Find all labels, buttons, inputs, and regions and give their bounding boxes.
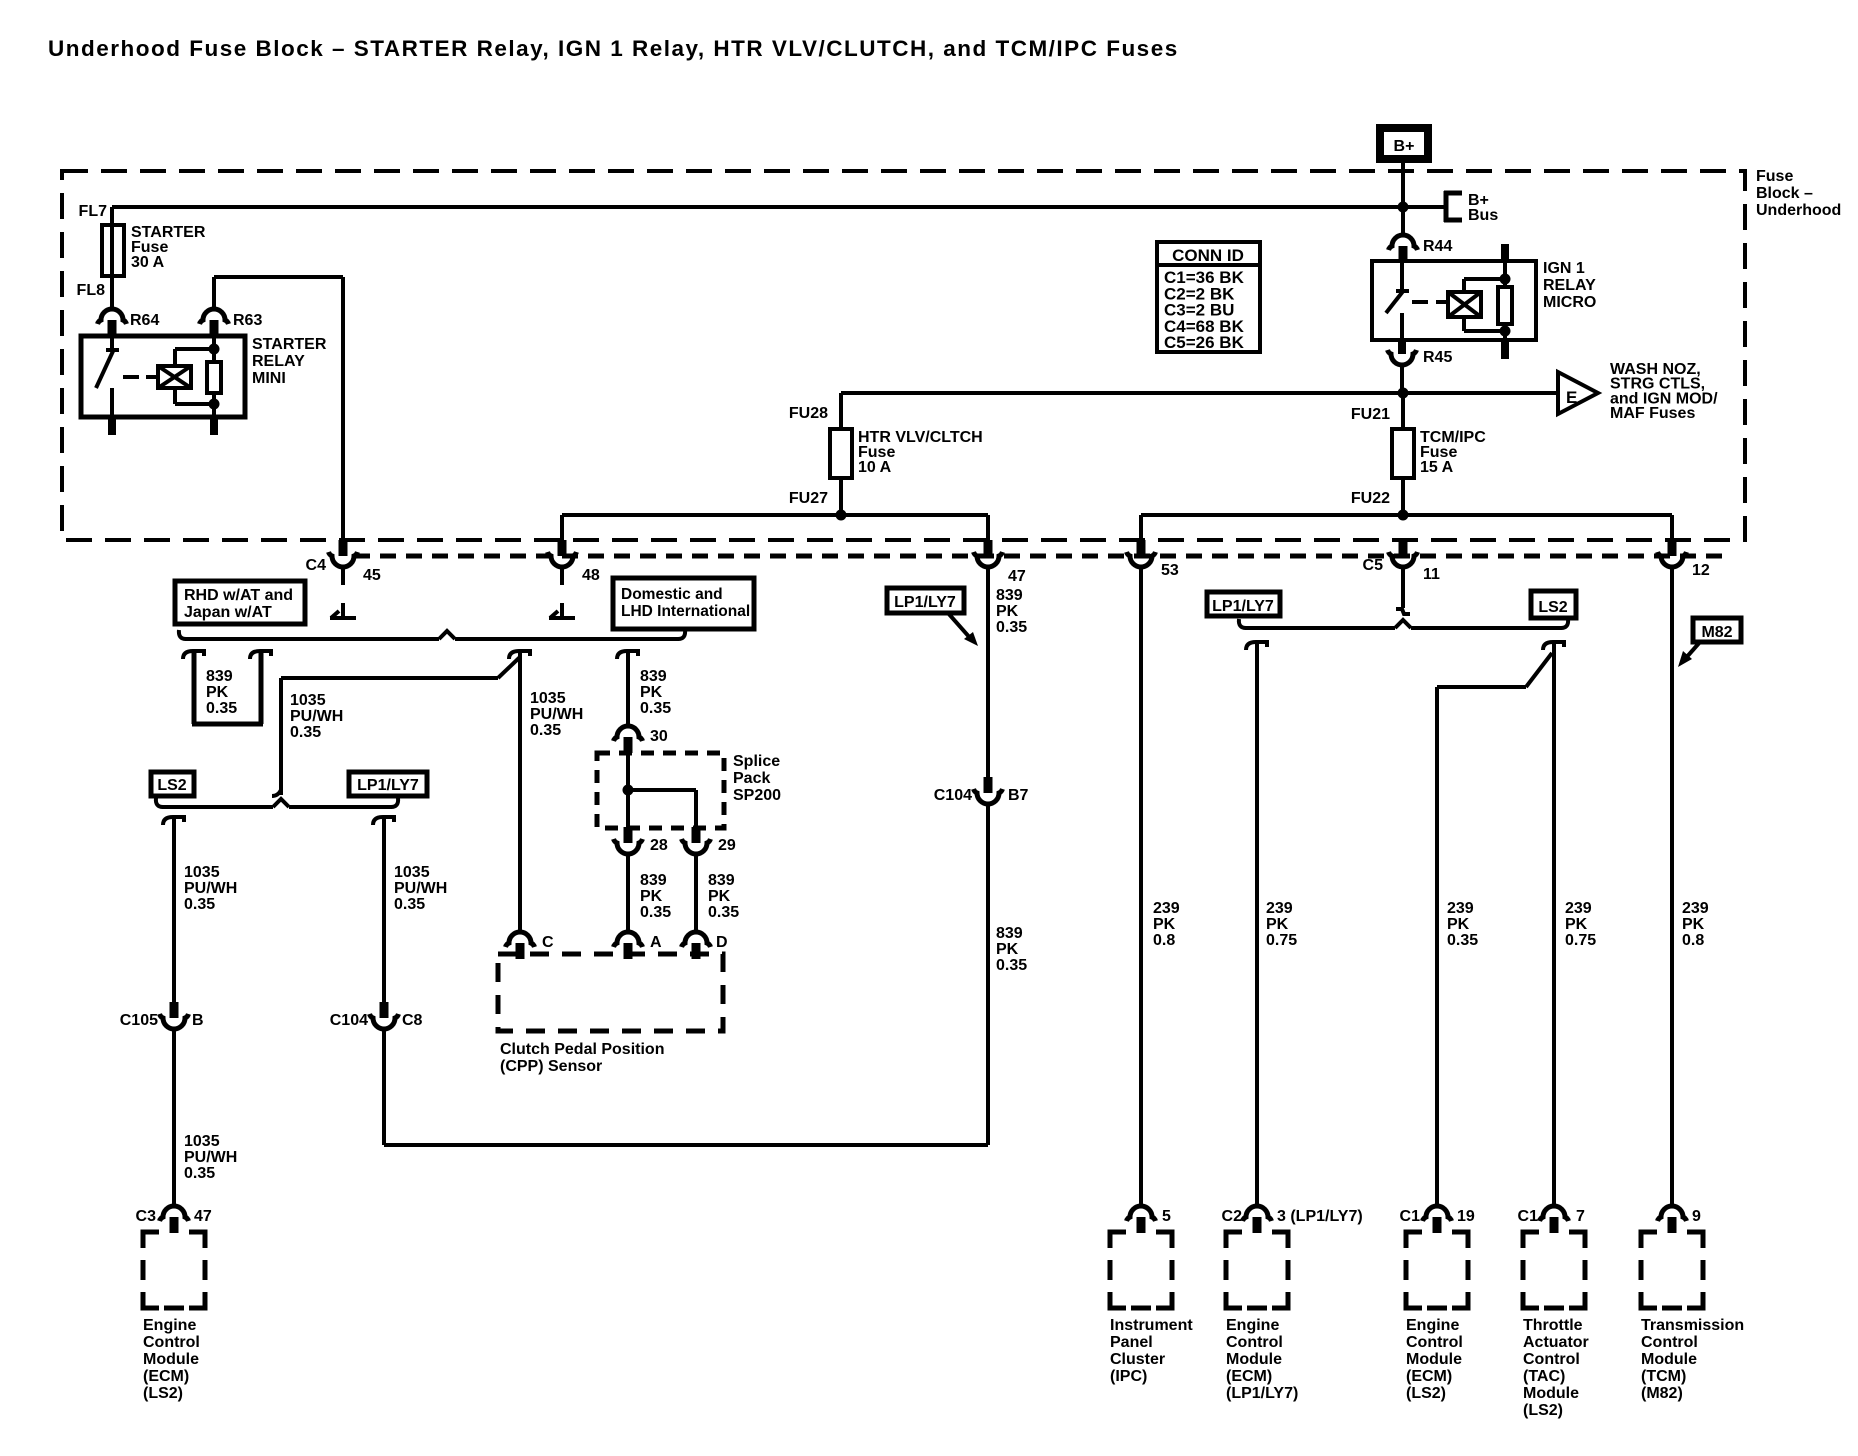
junction dot B+ bus (1398, 202, 1409, 213)
label box Domestic and LHD International (613, 578, 754, 629)
wire 839 to splice pack (617, 651, 638, 726)
wire LS2 to TAC (1543, 642, 1564, 1206)
svg-text:R64: R64 (130, 312, 159, 329)
svg-text:RHD w/AT and: RHD w/AT and (184, 587, 293, 604)
svg-text:PU/WH: PU/WH (394, 880, 447, 897)
svg-text:LS2: LS2 (157, 777, 186, 794)
wire FU28 feed (839, 393, 843, 429)
label 1035 PU/WH 0.35 to ECM (184, 1133, 237, 1182)
svg-text:FU28: FU28 (789, 405, 828, 422)
dead-end below 45 (330, 567, 356, 618)
svg-text:RELAY: RELAY (1543, 277, 1596, 294)
svg-text:M82: M82 (1701, 624, 1732, 641)
svg-text:839: 839 (640, 668, 667, 685)
B+ Bus tap symbol (1444, 191, 1498, 224)
svg-text:1035: 1035 (530, 690, 566, 707)
svg-text:PU/WH: PU/WH (290, 708, 343, 725)
svg-text:29: 29 (718, 837, 736, 854)
svg-text:0.35: 0.35 (184, 896, 215, 913)
svg-text:B+: B+ (1394, 138, 1415, 155)
svg-text:FL8: FL8 (77, 282, 106, 299)
svg-text:Pack: Pack (733, 770, 770, 787)
svg-text:C104: C104 (330, 1012, 368, 1029)
svg-text:B: B (192, 1012, 204, 1029)
svg-text:Control: Control (1641, 1334, 1698, 1351)
fuse FU21/FU22 TCM/IPC 15A (1351, 406, 1486, 507)
svg-text:Control: Control (143, 1334, 200, 1351)
svg-text:0.35: 0.35 (1447, 932, 1478, 949)
svg-text:MICRO: MICRO (1543, 294, 1596, 311)
svg-text:Splice: Splice (733, 753, 780, 770)
svg-text:(LS2): (LS2) (1406, 1385, 1446, 1402)
svg-text:A: A (650, 934, 662, 951)
svg-text:CONN ID: CONN ID (1172, 246, 1244, 265)
svg-text:PU/WH: PU/WH (184, 880, 237, 897)
starter relay pin stubs (108, 417, 218, 435)
svg-text:Panel: Panel (1110, 1334, 1153, 1351)
label 239 PK 0.75 TAC (1565, 900, 1596, 949)
svg-text:0.75: 0.75 (1565, 932, 1596, 949)
dead-end below 48 (549, 567, 575, 618)
wire C105 to C3 (172, 1029, 176, 1206)
label Throttle Actuator Control TAC Module LS2 (1523, 1317, 1589, 1419)
svg-text:839: 839 (640, 872, 667, 889)
wire FU21 feed (1401, 393, 1405, 429)
label Engine Control Module ECM LS2 right (1406, 1317, 1463, 1402)
svg-text:PK: PK (996, 603, 1019, 620)
svg-text:FU21: FU21 (1351, 406, 1390, 423)
wire LS2 to ECM2 (1437, 653, 1552, 1206)
starter relay resistor (175, 336, 221, 417)
svg-text:Engine: Engine (1226, 1317, 1279, 1334)
label 1035 PU/WH 0.35 LS2 (184, 864, 237, 913)
wire R45 to E bus (1400, 363, 1404, 393)
svg-text:Engine: Engine (143, 1317, 196, 1334)
svg-text:Control: Control (1226, 1334, 1283, 1351)
svg-text:(ECM): (ECM) (1226, 1368, 1272, 1385)
svg-text:0.35: 0.35 (640, 904, 671, 921)
svg-text:(CPP) Sensor: (CPP) Sensor (500, 1058, 602, 1075)
svg-text:PK: PK (1447, 916, 1470, 933)
svg-text:0.35: 0.35 (530, 722, 561, 739)
svg-text:30: 30 (650, 728, 668, 745)
svg-text:(LP1/LY7): (LP1/LY7) (1226, 1385, 1298, 1402)
svg-text:Clutch Pedal Position: Clutch Pedal Position (500, 1041, 664, 1058)
wire 53 to IPC (1139, 567, 1143, 1206)
svg-text:STARTER: STARTER (252, 336, 327, 353)
junction dot E bus (1398, 388, 1409, 399)
wire bus to connector 12 (1670, 515, 1674, 542)
svg-text:SP200: SP200 (733, 787, 781, 804)
fuse FU28/FU27 HTR VLV/CLTCH 10A (789, 405, 983, 507)
connector R64 (98, 309, 160, 336)
label STARTER RELAY MINI (252, 336, 327, 387)
svg-text:Japan w/AT: Japan w/AT (184, 604, 272, 621)
module box ECM LS2 right (1406, 1232, 1468, 1308)
label 239 PK 0.8 TCM (1682, 900, 1709, 949)
svg-text:FU27: FU27 (789, 490, 828, 507)
svg-text:PU/WH: PU/WH (184, 1149, 237, 1166)
svg-text:PK: PK (708, 888, 731, 905)
brace LS2/LP1 options (156, 798, 398, 807)
svg-text:PK: PK (640, 684, 663, 701)
wire 47 to B7 (986, 567, 990, 779)
arrow E to other fuses (1558, 372, 1598, 414)
connector C5 pin 12 (1658, 540, 1710, 579)
connector C5 pin 11 (1363, 540, 1440, 583)
svg-text:PK: PK (996, 941, 1019, 958)
brace LP1/LS2 options right (1239, 619, 1568, 628)
IGN1 relay coil (1448, 279, 1481, 331)
svg-text:C1: C1 (1518, 1208, 1539, 1225)
label box LP1/LY7 with arrow to 839 wire (887, 588, 978, 646)
svg-text:LP1/LY7: LP1/LY7 (357, 777, 419, 794)
svg-text:Underhood Fuse Block – STARTER: Underhood Fuse Block – STARTER Relay, IG… (48, 36, 1179, 61)
wire left fuse output bus (562, 513, 988, 517)
wire E distribution bus (841, 391, 1558, 395)
label 839 PK 0.35 pin28 (640, 872, 671, 921)
starter relay switch (96, 336, 119, 417)
connector C4 pin 47 (974, 540, 1026, 585)
node B+ battery feed (1380, 128, 1428, 159)
svg-text:0.35: 0.35 (996, 619, 1027, 636)
wire 11 to brace (1396, 567, 1410, 614)
connector C3 pin 47 (136, 1206, 212, 1233)
svg-text:5: 5 (1162, 1208, 1171, 1225)
svg-text:239: 239 (1153, 900, 1180, 917)
svg-text:12: 12 (1692, 562, 1710, 579)
connector C1 pin 7 (1518, 1206, 1585, 1233)
svg-text:Throttle: Throttle (1523, 1317, 1583, 1334)
svg-text:R45: R45 (1423, 349, 1452, 366)
wire R63 up (212, 277, 216, 309)
connector C104 pin B7 (934, 777, 1029, 804)
svg-text:MAF Fuses: MAF Fuses (1610, 405, 1695, 422)
svg-text:0.35: 0.35 (290, 724, 321, 741)
svg-text:(M82): (M82) (1641, 1385, 1683, 1402)
svg-text:15 A: 15 A (1420, 459, 1454, 476)
label 239 PK 0.75 ECM1 (1266, 900, 1297, 949)
IGN1 relay junction dots (1500, 274, 1511, 337)
label Transmission Control Module TCM M82 (1641, 1317, 1744, 1402)
wire bus to connector 47 (986, 515, 990, 542)
connector 30 splice pack (614, 726, 668, 753)
svg-text:LHD International: LHD International (621, 603, 750, 620)
svg-text:1035: 1035 (394, 864, 430, 881)
title text (48, 36, 1179, 61)
svg-text:(TCM): (TCM) (1641, 1368, 1686, 1385)
svg-text:0.8: 0.8 (1153, 932, 1175, 949)
svg-text:Actuator: Actuator (1523, 1334, 1589, 1351)
label 1035 PU/WH 0.35 CPP feed (530, 690, 583, 739)
connector R45 (1388, 340, 1453, 366)
svg-text:53: 53 (1161, 562, 1179, 579)
svg-text:Control: Control (1406, 1334, 1463, 1351)
svg-text:11: 11 (1423, 566, 1440, 583)
svg-text:PK: PK (1153, 916, 1176, 933)
svg-text:239: 239 (1447, 900, 1474, 917)
relay K-START STARTER RELAY MINI box (81, 336, 245, 417)
svg-text:PK: PK (206, 684, 229, 701)
svg-text:Transmission: Transmission (1641, 1317, 1744, 1334)
svg-text:45: 45 (363, 567, 381, 584)
svg-text:Engine: Engine (1406, 1317, 1459, 1334)
connector C105 pin B (120, 1002, 204, 1029)
fuse block underhood dashed boundary (62, 171, 1745, 540)
svg-text:E: E (1566, 388, 1577, 407)
label IGN 1 RELAY MICRO (1543, 260, 1596, 311)
svg-text:47: 47 (194, 1208, 212, 1225)
svg-text:Module: Module (1523, 1385, 1579, 1402)
svg-text:0.35: 0.35 (184, 1165, 215, 1182)
svg-text:839: 839 (708, 872, 735, 889)
module box ECM LP1/LY7 (1226, 1232, 1288, 1308)
wire 29 to D (694, 854, 698, 932)
wire C8 link (384, 804, 988, 1145)
svg-text:Domestic and: Domestic and (621, 586, 723, 603)
svg-text:1035: 1035 (184, 864, 220, 881)
label Clutch Pedal Position CPP Sensor (500, 1041, 664, 1075)
svg-text:R44: R44 (1423, 238, 1452, 255)
svg-text:Cluster: Cluster (1110, 1351, 1165, 1368)
svg-text:C5=26 BK: C5=26 BK (1164, 333, 1245, 352)
svg-text:C105: C105 (120, 1012, 158, 1029)
label Engine Control Module ECM LS2 left (143, 1317, 200, 1402)
connector C4 pin 53 (1127, 540, 1179, 579)
IGN1 relay pin stubs (1501, 244, 1509, 359)
label box LS2 left (151, 772, 194, 796)
connector R63 (200, 309, 263, 336)
wire LP1 to ECM1 (1246, 642, 1267, 1206)
wire top feed bus (112, 205, 1445, 209)
label 839 PK 0.35 pin29 (708, 872, 739, 921)
module box Engine Control Module ECM LS2 left (143, 1232, 205, 1308)
svg-text:(IPC): (IPC) (1110, 1368, 1147, 1385)
wire 839 option loop (183, 651, 271, 724)
svg-text:Fuse: Fuse (1756, 168, 1793, 185)
wire right fuse output bus (1141, 513, 1672, 517)
svg-text:IGN 1: IGN 1 (1543, 260, 1585, 277)
module box TAC Module (1523, 1232, 1585, 1308)
label Fuse Block - Underhood (1756, 168, 1841, 219)
svg-text:C4: C4 (306, 557, 327, 574)
svg-text:D: D (716, 934, 728, 951)
svg-text:Underhood: Underhood (1756, 202, 1841, 219)
in-line connector dotted line (354, 554, 1728, 559)
label box LS2 right (1531, 591, 1576, 618)
svg-text:47: 47 (1008, 568, 1026, 585)
IGN1 relay resistor (1464, 261, 1512, 340)
svg-text:Module: Module (1406, 1351, 1462, 1368)
connector 29 (682, 827, 736, 854)
wire bus to connector 48 (560, 515, 564, 542)
connector 28 (614, 827, 668, 854)
svg-text:Block –: Block – (1756, 185, 1813, 202)
svg-text:Control: Control (1523, 1351, 1580, 1368)
module box CPP sensor (498, 954, 723, 1031)
svg-text:Module: Module (1641, 1351, 1697, 1368)
wire 1035 branch to LS2/LP1 brace (272, 657, 520, 796)
label Splice Pack SP200 (733, 753, 781, 804)
svg-text:(ECM): (ECM) (143, 1368, 189, 1385)
svg-text:48: 48 (582, 567, 600, 584)
svg-text:C2: C2 (1222, 1208, 1243, 1225)
junction dot FU27 bus (836, 510, 847, 521)
svg-text:(ECM): (ECM) (1406, 1368, 1452, 1385)
svg-text:C104: C104 (934, 787, 972, 804)
svg-text:FL7: FL7 (79, 203, 108, 220)
svg-text:10 A: 10 A (858, 459, 892, 476)
label 839 PK 0.35 option loop (206, 668, 237, 717)
svg-text:839: 839 (206, 668, 233, 685)
svg-text:Module: Module (1226, 1351, 1282, 1368)
relay U-IGN1 IGN 1 RELAY MICRO box (1372, 261, 1536, 340)
svg-text:C: C (542, 934, 554, 951)
label box LP1/LY7 right (1207, 592, 1280, 616)
svg-text:PK: PK (1266, 916, 1289, 933)
label box M82 with arrow (1678, 618, 1741, 667)
starter relay coil (158, 349, 191, 404)
svg-text:R63: R63 (233, 312, 262, 329)
splice pack SP200 dashed box (597, 753, 724, 828)
svg-text:3 (LP1/LY7): 3 (LP1/LY7) (1277, 1208, 1363, 1225)
svg-text:1035: 1035 (290, 692, 326, 709)
svg-text:239: 239 (1266, 900, 1293, 917)
svg-text:B7: B7 (1008, 787, 1029, 804)
svg-text:Instrument: Instrument (1110, 1317, 1193, 1334)
svg-text:C3: C3 (136, 1208, 157, 1225)
svg-text:LS2: LS2 (1538, 599, 1567, 616)
svg-text:19: 19 (1457, 1208, 1475, 1225)
label 839 PK 0.35 below B7 (996, 925, 1027, 974)
svg-text:(LS2): (LS2) (143, 1385, 183, 1402)
svg-text:Module: Module (143, 1351, 199, 1368)
svg-text:LP1/LY7: LP1/LY7 (1212, 598, 1274, 615)
svg-text:0.35: 0.35 (640, 700, 671, 717)
svg-text:MINI: MINI (252, 370, 286, 387)
brace options to connectors 45/48 (179, 630, 685, 639)
svg-text:FU22: FU22 (1351, 490, 1390, 507)
svg-text:RELAY: RELAY (252, 353, 305, 370)
svg-text:0.35: 0.35 (394, 896, 425, 913)
svg-text:C5: C5 (1363, 557, 1384, 574)
svg-text:(TAC): (TAC) (1523, 1368, 1565, 1385)
connector CPP pin C (506, 932, 555, 959)
connector C2 pin 3 (1222, 1206, 1363, 1233)
label 1035 PU/WH 0.35 branch (290, 692, 343, 741)
wire bus to connector 53 (1139, 515, 1143, 542)
label 1035 PU/WH 0.35 LP1 (394, 864, 447, 913)
wire 28 to A (626, 854, 630, 932)
wire FL7 feed down (110, 207, 114, 309)
svg-text:C1: C1 (1400, 1208, 1421, 1225)
connector CPP pin D (682, 932, 728, 959)
svg-text:Bus: Bus (1468, 207, 1498, 224)
svg-text:0.35: 0.35 (708, 904, 739, 921)
svg-text:0.75: 0.75 (1266, 932, 1297, 949)
module box TCM (1641, 1232, 1703, 1308)
label WASH NOZ STRG CTLS and IGN MOD MAF Fuses (1610, 361, 1718, 422)
svg-text:0.8: 0.8 (1682, 932, 1704, 949)
svg-text:839: 839 (996, 587, 1023, 604)
wire R63 to connector 45 (214, 277, 343, 542)
svg-text:(LS2): (LS2) (1523, 1402, 1563, 1419)
starter relay articulation dashes (123, 375, 156, 379)
wire 1035 to C104 C8 (373, 817, 394, 1004)
svg-text:LP1/LY7: LP1/LY7 (894, 594, 956, 611)
label Engine Control Module ECM LP1/LY7 (1226, 1317, 1298, 1402)
label 839 PK 0.35 splice feed (640, 668, 671, 717)
svg-text:1035: 1035 (184, 1133, 220, 1150)
module box Instrument Panel Cluster (1110, 1232, 1172, 1308)
svg-text:30 A: 30 A (131, 254, 165, 271)
connector C104 pin C8 (330, 1002, 423, 1029)
svg-text:PU/WH: PU/WH (530, 706, 583, 723)
connector TCM pin 9 (1658, 1206, 1702, 1233)
IGN1 relay articulation dashes (1412, 300, 1448, 304)
IGN1 relay switch (1386, 261, 1409, 340)
wire 1035 to CPP C (509, 651, 530, 932)
label 839 PK 0.35 from 47 (996, 587, 1027, 636)
svg-text:28: 28 (650, 837, 668, 854)
label Instrument Panel Cluster IPC (1110, 1317, 1193, 1385)
CONN ID table (1157, 242, 1260, 352)
wire 12 to TCM (1670, 567, 1674, 1206)
label box LP1/LY7 left (349, 772, 427, 796)
svg-text:9: 9 (1692, 1208, 1701, 1225)
junction dot FU22 bus (1398, 510, 1409, 521)
svg-text:PK: PK (1682, 916, 1705, 933)
label 239 PK 0.8 IPC (1153, 900, 1180, 949)
svg-text:PK: PK (1565, 916, 1588, 933)
connector R44 (1389, 235, 1453, 262)
connector CPP pin A (614, 932, 663, 959)
svg-text:239: 239 (1565, 900, 1592, 917)
svg-text:239: 239 (1682, 900, 1709, 917)
svg-text:0.35: 0.35 (206, 700, 237, 717)
starter relay junction dots (209, 344, 220, 410)
wire FU27 down (839, 478, 843, 515)
wire B+ down to bus (1401, 163, 1405, 235)
svg-text:0.35: 0.35 (996, 957, 1027, 974)
connector C1 pin 19 (1400, 1206, 1475, 1233)
wire splice internal (623, 753, 697, 828)
svg-text:7: 7 (1576, 1208, 1585, 1225)
svg-text:C8: C8 (402, 1012, 423, 1029)
fuse FL7/FL8 STARTER Fuse 30A (77, 203, 206, 299)
connector C4 pin 48 (548, 540, 600, 584)
label box RHD w/AT and Japan w/AT (175, 581, 305, 624)
wire FU22 down (1401, 478, 1405, 515)
svg-text:PK: PK (640, 888, 663, 905)
svg-text:839: 839 (996, 925, 1023, 942)
connector C4 pin 45 (306, 540, 381, 584)
wire 1035 to C105 (163, 817, 184, 1004)
connector IPC pin 5 (1127, 1206, 1172, 1233)
label 239 PK 0.35 ECM2 (1447, 900, 1478, 949)
